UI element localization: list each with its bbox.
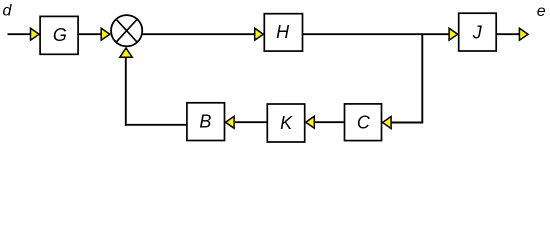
summing junction circle with X: [111, 15, 142, 46]
wire C to K: [315, 121, 345, 123]
wire B to left corner: [125, 124, 187, 126]
arrowhead into H: [255, 28, 264, 40]
svg-text:H: H: [276, 22, 290, 42]
block C: [345, 104, 382, 141]
arrowhead into K: [306, 116, 315, 128]
wire branch down from H-J line: [421, 34, 423, 123]
block B: [187, 103, 225, 141]
svg-text:e: e: [537, 3, 546, 20]
block G: [40, 16, 78, 54]
wire G to summing junction: [78, 33, 102, 35]
arrowhead into B: [226, 116, 235, 128]
block K: [267, 104, 304, 142]
arrowhead into C: [383, 117, 392, 129]
svg-text:C: C: [357, 112, 371, 132]
svg-text:G: G: [53, 25, 67, 45]
svg-text:d: d: [3, 3, 13, 20]
wire branch corner to C: [392, 122, 424, 124]
wire input d to arrow: [8, 33, 32, 35]
block H: [264, 14, 302, 51]
svg-text:J: J: [472, 22, 483, 42]
wire H to J: [303, 33, 450, 35]
svg-text:B: B: [199, 112, 211, 132]
wire summing junction to H: [142, 33, 255, 35]
output arrowhead e: [519, 28, 528, 40]
arrowhead into summing junction bottom: [120, 48, 132, 57]
svg-text:K: K: [280, 113, 293, 133]
arrowhead into G: [31, 28, 40, 40]
wire J to output arrow: [496, 33, 520, 35]
arrowhead into J: [449, 28, 458, 40]
block J: [459, 13, 497, 51]
arrowhead into summing junction: [101, 28, 110, 40]
wire K to B: [235, 121, 267, 123]
wire feedback up to summing junction: [125, 57, 127, 126]
